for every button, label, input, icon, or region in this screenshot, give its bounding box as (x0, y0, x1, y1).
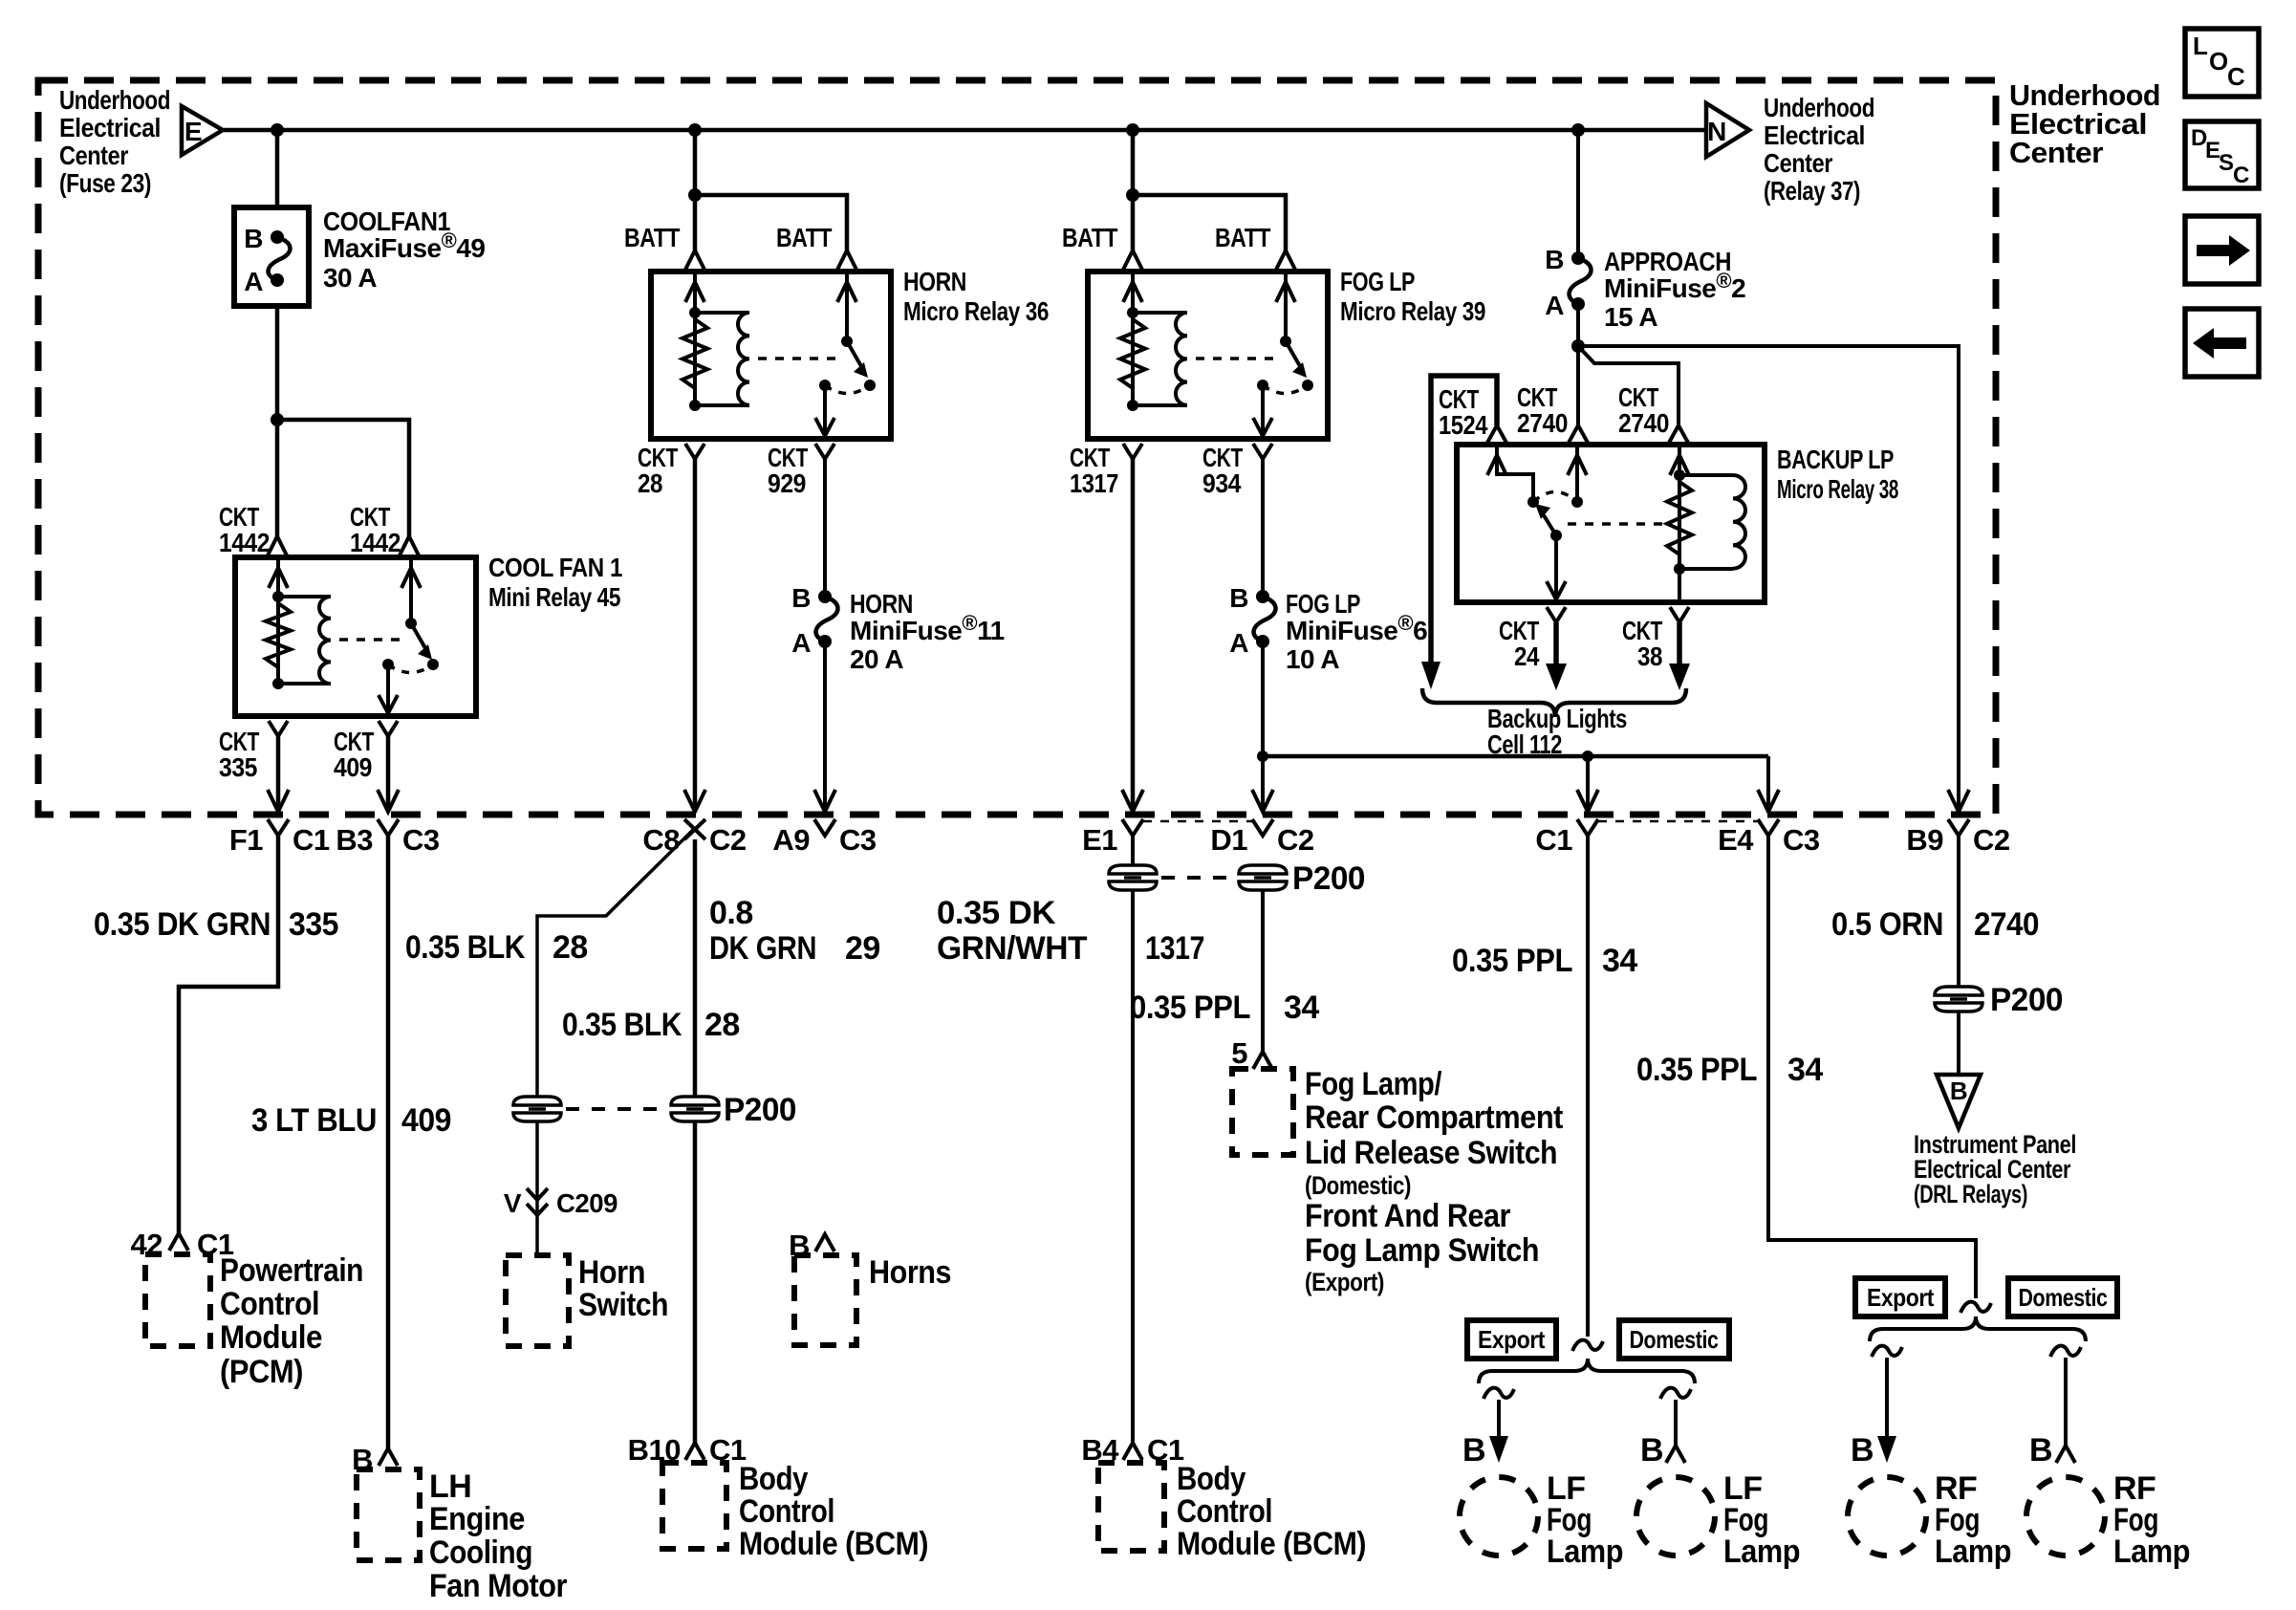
connector group dashed line C1-E4 (1598, 820, 1758, 823)
relay FOG LP Micro Relay 39 actuation dashed link (1196, 357, 1277, 360)
svg-text:BATT: BATT (776, 223, 832, 252)
wire: bus to COOLFAN1 fuse (275, 130, 280, 207)
terminal chevrons into FOG LP relay (1123, 250, 1142, 270)
relay 38 coil arm (1678, 445, 1681, 602)
brace: LF split (1479, 1359, 1695, 1383)
svg-text:Micro Relay 36: Micro Relay 36 (903, 296, 1049, 326)
svg-text:A: A (244, 267, 263, 296)
svg-text:Mini Relay 45: Mini Relay 45 (488, 582, 620, 612)
svg-text:B: B (1545, 245, 1564, 274)
svg-text:Control: Control (1177, 1493, 1272, 1530)
wire: P200 to instrument panel (1957, 1011, 1960, 1075)
relay 38 fixed contact arm (1575, 445, 1579, 500)
svg-text:L: L (2193, 32, 2208, 60)
svg-text:COOLFAN1: COOLFAN1 (323, 207, 450, 236)
svg-text:0.35 DK: 0.35 DK (937, 895, 1056, 931)
connector crossing E4/C3 (1758, 790, 1779, 812)
svg-text:Electrical: Electrical (1764, 120, 1865, 150)
relay HORN Micro Relay 36 actuation dashed link (758, 357, 838, 360)
wire break symbol (1960, 1302, 1991, 1313)
svg-text:Underhood: Underhood (59, 85, 170, 115)
svg-text:MaxiFuse®49: MaxiFuse®49 (323, 228, 485, 263)
wire: relay 39 switch to FOG LP fuse (1261, 459, 1265, 597)
option box: Domestic (2008, 1278, 2117, 1316)
wire: C1 down to LF split (1586, 836, 1590, 1337)
svg-text:Engine: Engine (429, 1501, 525, 1537)
legend box DESC (2185, 121, 2259, 188)
svg-text:Fog Lamp Switch: Fog Lamp Switch (1305, 1232, 1539, 1269)
wire: relay 36 switch to HORN fuse (823, 459, 827, 597)
fuse FOG LP MiniFuse 6 10A (1256, 590, 1269, 603)
svg-text:COOL FAN 1: COOL FAN 1 (488, 553, 622, 582)
svg-text:DK GRN: DK GRN (709, 930, 816, 967)
node E: feed triangle from Fuse 23 (182, 106, 223, 155)
relay FOG LP Micro Relay 39 resistor (1120, 319, 1145, 388)
svg-text:BATT: BATT (624, 223, 680, 252)
component box: Horns (794, 1255, 856, 1345)
svg-text:Horn: Horn (578, 1254, 645, 1291)
svg-text:HORN: HORN (903, 267, 966, 296)
svg-text:Module: Module (220, 1319, 322, 1356)
terminal B4/C1 into BCM (1123, 1443, 1142, 1460)
svg-text:34: 34 (1787, 1052, 1823, 1088)
svg-text:Body: Body (739, 1461, 809, 1497)
relay 38 resistor (1667, 482, 1692, 555)
svg-text:Domestic: Domestic (1630, 1325, 1719, 1354)
svg-text:MiniFuse®11: MiniFuse®11 (850, 611, 1005, 645)
connector V / C209 (527, 1188, 548, 1200)
svg-text:Center: Center (2009, 136, 2103, 169)
terminal 5 into fog lamp switch (1253, 1052, 1272, 1069)
wire: jog to backup relay coil arm (1578, 346, 1679, 425)
relay HORN Micro Relay 36 coil (695, 311, 749, 315)
node: junction at APPROACH fuse feed (1571, 123, 1585, 137)
svg-text:Control: Control (220, 1286, 319, 1322)
svg-text:5: 5 (1231, 1036, 1247, 1070)
inline connector P200 half at horn switch branch (513, 1097, 561, 1121)
relay FOG LP Micro Relay 39 coil arm (1131, 272, 1135, 405)
relay BACKUP LP Micro Relay 38 box (1457, 445, 1765, 602)
svg-text:S: S (2219, 150, 2234, 176)
wire: bus drop to APPROACH fuse (1576, 130, 1580, 258)
node B: Instrument Panel Electrical Center triangle (1937, 1075, 1981, 1128)
connector crossing C8/C2 (684, 790, 705, 812)
svg-text:LH: LH (429, 1469, 471, 1505)
wire: B9 to P200 (1957, 836, 1960, 988)
inline connector dashed pair link (566, 1107, 667, 1111)
svg-text:0.35 PPL: 0.35 PPL (1636, 1052, 1757, 1088)
relay COOL FAN 1 Mini Relay 45 switch (409, 557, 413, 623)
svg-text:Module (BCM): Module (BCM) (1177, 1526, 1366, 1562)
svg-text:B: B (791, 583, 811, 613)
svg-text:B3: B3 (336, 823, 373, 857)
component box: Fog Lamp / Rear Compartment Lid Release Switch (1232, 1069, 1293, 1155)
wire: fog fuse bus to C1 and E4 (1263, 754, 1768, 759)
svg-text:Center: Center (59, 141, 128, 170)
relay FOG LP Micro Relay 39 switch (1284, 272, 1288, 341)
svg-text:Module (BCM): Module (BCM) (739, 1526, 928, 1562)
svg-text:1442: 1442 (350, 528, 401, 557)
node: junction above COOL FAN relay (271, 413, 284, 426)
svg-text:P200: P200 (1292, 860, 1365, 897)
wire: E4 jog down to RF split (1768, 836, 1976, 1298)
component box: Body Control Module (BCM) 1 (662, 1463, 726, 1549)
svg-text:0.35 DK GRN: 0.35 DK GRN (94, 906, 271, 943)
svg-text:0.8: 0.8 (709, 895, 753, 931)
component box: LH Engine Cooling Fan Motor (357, 1469, 420, 1560)
component box: Powertrain Control Module (PCM) (145, 1254, 210, 1346)
svg-text:Body: Body (1177, 1461, 1246, 1497)
option box: Export (1467, 1320, 1556, 1359)
svg-text:A: A (1229, 628, 1248, 658)
svg-text:A: A (791, 628, 811, 658)
svg-text:Center: Center (1764, 148, 1832, 178)
option box: Domestic (1619, 1320, 1729, 1359)
wire: D1 P200 to fog lamp switch (1261, 889, 1265, 1052)
relay HORN Micro Relay 36 coil arm (693, 272, 697, 405)
wire: top power bus from E to N (224, 128, 1706, 133)
svg-text:GRN/WHT: GRN/WHT (937, 930, 1088, 967)
svg-text:1442: 1442 (219, 528, 270, 557)
svg-text:Fog Lamp/: Fog Lamp/ (1305, 1066, 1442, 1102)
svg-text:Export: Export (1867, 1283, 1935, 1312)
node: junction FOG LP relay branch (1126, 188, 1139, 202)
inline connector P200 half at D1 (1239, 865, 1287, 890)
wire: bus drop to HORN relay (693, 130, 698, 250)
svg-text:Powertrain: Powertrain (220, 1252, 363, 1289)
relay 38 dashed contact arc (1533, 492, 1577, 503)
svg-text:28: 28 (638, 468, 662, 498)
svg-text:Export: Export (1478, 1325, 1546, 1354)
svg-text:B: B (1851, 1432, 1874, 1469)
relay COOL FAN 1 Mini Relay 45 actuation dashed link (339, 638, 402, 642)
relay 38 switch blade (1544, 515, 1556, 535)
svg-text:1317: 1317 (1070, 468, 1118, 498)
node: junction at C1 drop (1582, 751, 1593, 762)
svg-text:0.35 BLK: 0.35 BLK (405, 929, 526, 966)
svg-text:335: 335 (289, 906, 338, 943)
relay HORN Micro Relay 36 box (651, 272, 891, 439)
wire: APPROACH fuse to junction (1576, 304, 1580, 425)
svg-text:24: 24 (1514, 642, 1540, 671)
lamp: LF Fog Lamp (1460, 1477, 1538, 1556)
wire: FOG fuse to backup-lights bus (1261, 642, 1265, 808)
svg-text:0.35 PPL: 0.35 PPL (1452, 943, 1572, 979)
wire: C1 drop to border (1586, 756, 1590, 808)
lamp: LF Fog Lamp (1636, 1477, 1715, 1556)
svg-text:B: B (1950, 1077, 1967, 1105)
relay HORN Micro Relay 36 resistor (682, 319, 707, 388)
relay 38 coil (1679, 473, 1733, 477)
inline connector P200 half at B9 (1935, 987, 1982, 1012)
svg-text:34: 34 (1602, 943, 1637, 979)
svg-text:28: 28 (552, 929, 588, 966)
svg-text:Micro Relay 39: Micro Relay 39 (1340, 296, 1485, 326)
svg-text:0.5 ORN: 0.5 ORN (1831, 906, 1943, 943)
svg-text:P200: P200 (724, 1092, 796, 1128)
wire: F1 jog to PCM (179, 836, 278, 1233)
brace: backup lights outputs (1422, 688, 1686, 717)
svg-text:A9: A9 (772, 823, 810, 857)
node: junction at FOG LP relay feed (1126, 123, 1139, 137)
wire CKT 38 output (1677, 622, 1682, 664)
svg-text:Lamp: Lamp (1723, 1534, 1800, 1570)
svg-text:C: C (2227, 62, 2245, 91)
wire: branch to relay switch arm (277, 420, 409, 536)
svg-text:BATT: BATT (1062, 223, 1117, 252)
svg-text:BATT: BATT (1215, 223, 1270, 252)
relay FOG LP Micro Relay 39 box (1088, 272, 1328, 439)
svg-text:20 A: 20 A (850, 644, 903, 674)
svg-text:Underhood: Underhood (1764, 93, 1874, 122)
svg-text:B: B (2029, 1432, 2052, 1469)
svg-text:929: 929 (768, 468, 806, 498)
relay COOL FAN 1 Mini Relay 45 coil arm (276, 557, 280, 684)
wire: LF domestic branch (1660, 1388, 1691, 1399)
svg-text:(Domestic): (Domestic) (1305, 1171, 1411, 1200)
wire: relay 45 pin to B3 (386, 736, 391, 808)
svg-text:N: N (1707, 117, 1726, 146)
wire: diagonal from C8 to horn-switch branch (537, 829, 694, 1098)
component box: Body Control Module (BCM) 2 (1098, 1463, 1164, 1551)
svg-text:C: C (2233, 163, 2249, 188)
node: junction at COOLFAN1 feed (271, 123, 284, 137)
lamp: RF Fog Lamp (2026, 1477, 2105, 1556)
svg-text:34: 34 (1284, 990, 1319, 1026)
svg-text:B9: B9 (1906, 823, 1943, 857)
svg-text:Micro Relay 38: Micro Relay 38 (1777, 474, 1898, 504)
component box: Horn Switch (506, 1255, 569, 1346)
legend box left-arrow (2185, 309, 2259, 377)
relay FOG LP Micro Relay 39 exit terminals (1123, 444, 1142, 459)
svg-text:0.35 PPL: 0.35 PPL (1130, 990, 1250, 1026)
svg-text:Lamp: Lamp (2113, 1534, 2190, 1570)
svg-text:Lamp: Lamp (1935, 1534, 2011, 1570)
svg-text:(Export): (Export) (1305, 1268, 1384, 1296)
svg-text:C2: C2 (709, 823, 747, 857)
connector crossing D1/C2 (1252, 790, 1273, 812)
svg-text:Cooling: Cooling (429, 1534, 532, 1571)
wire: branch to HORN relay switch arm (695, 195, 847, 250)
wire: P200 to BCM B10 (693, 1120, 698, 1443)
svg-text:15 A: 15 A (1604, 302, 1657, 332)
dashed box: Underhood Electrical Center boundary (38, 80, 1996, 815)
svg-text:C3: C3 (1783, 823, 1820, 857)
svg-text:28: 28 (704, 1007, 740, 1043)
svg-text:B: B (244, 224, 263, 253)
terminal B into Horns (815, 1234, 834, 1251)
svg-text:APPROACH: APPROACH (1604, 247, 1731, 276)
lamp: RF Fog Lamp (1848, 1477, 1926, 1556)
wire: P200 to C209 (535, 1120, 539, 1255)
svg-text:BACKUP LP: BACKUP LP (1777, 445, 1894, 474)
svg-text:B: B (1640, 1432, 1663, 1469)
svg-text:Electrical: Electrical (59, 113, 161, 142)
wire: E1 to P200 (1131, 836, 1135, 866)
svg-text:C1: C1 (292, 823, 330, 857)
svg-text:1524: 1524 (1439, 410, 1488, 440)
svg-text:C2: C2 (1277, 823, 1314, 857)
wire: RF export branch (1872, 1346, 1902, 1357)
option box: Export (1855, 1278, 1945, 1316)
svg-text:Horns: Horns (869, 1254, 951, 1291)
wire break symbol (1572, 1340, 1603, 1351)
svg-text:C8: C8 (642, 823, 680, 857)
connector crossing A9/C3 (814, 790, 835, 812)
fuse HORN MiniFuse 11 20A (818, 590, 832, 603)
svg-text:B: B (1229, 583, 1248, 613)
inline connector dashed pair link (1161, 876, 1235, 880)
wire: E1 P200 to BCM B4 (1131, 889, 1135, 1443)
relay 38 exit terminals (1547, 607, 1566, 622)
svg-text:(PCM): (PCM) (220, 1354, 303, 1390)
svg-text:F1: F1 (229, 823, 263, 857)
relay 38 dashed actuation link (1568, 522, 1664, 526)
svg-text:29: 29 (845, 930, 880, 967)
wire: bus drop to FOG LP relay (1131, 130, 1136, 250)
svg-text:3 LT BLU: 3 LT BLU (251, 1102, 377, 1139)
fuse element (271, 230, 284, 244)
connector crossing C1 (1577, 790, 1598, 812)
connector group dashed line E1-D1 (1143, 820, 1252, 823)
svg-text:Switch: Switch (578, 1287, 668, 1323)
svg-text:2740: 2740 (1974, 906, 2039, 943)
svg-text:C1: C1 (1535, 823, 1572, 857)
brace: RF split (1870, 1316, 2086, 1341)
svg-text:C209: C209 (556, 1188, 617, 1218)
svg-text:HORN: HORN (850, 589, 913, 619)
svg-text:Domestic: Domestic (2019, 1283, 2108, 1312)
svg-text:(Fuse 23): (Fuse 23) (59, 168, 151, 198)
legend box right-arrow (2185, 216, 2259, 284)
terminal chevrons into COOL FAN relay (268, 536, 287, 555)
legend box LOC (2185, 29, 2259, 97)
relay COOL FAN 1 Mini Relay 45 exit terminals (269, 721, 288, 736)
fuse APPROACH MiniFuse 2 15A (1571, 251, 1585, 265)
svg-text:10 A: 10 A (1286, 644, 1339, 674)
svg-text:(DRL Relays): (DRL Relays) (1914, 1180, 2027, 1208)
svg-text:D1: D1 (1210, 823, 1247, 857)
svg-text:Lamp: Lamp (1547, 1534, 1623, 1570)
relay FOG LP Micro Relay 39 coil (1133, 311, 1187, 315)
svg-text:E4: E4 (1718, 823, 1754, 857)
terminal B into LH fan motor (379, 1448, 398, 1466)
svg-text:934: 934 (1202, 468, 1242, 498)
svg-text:V: V (504, 1188, 522, 1218)
relay COOL FAN 1 Mini Relay 45 box (235, 557, 476, 716)
wire: junction to B9 drop (1578, 346, 1959, 808)
svg-text:O: O (2209, 47, 2228, 76)
svg-text:P200: P200 (1990, 982, 2063, 1018)
terminal B10/C1 into BCM (685, 1443, 704, 1460)
connector crossing B3/C3 (378, 790, 399, 812)
wire: relay 36 coil return to C8 (693, 459, 698, 808)
wire: relay 39 coil return to E1 (1131, 459, 1136, 808)
svg-text:C3: C3 (402, 823, 440, 857)
svg-text:FOG LP: FOG LP (1340, 267, 1415, 296)
inline connector P200 half at BCM branch (671, 1097, 719, 1121)
node N: to Underhood Electrical Center (Relay 37) (1706, 103, 1749, 157)
svg-text:335: 335 (219, 752, 257, 782)
wire CKT 24 output (1553, 622, 1559, 664)
fuse COOLFAN1 MaxiFuse 49 box (234, 207, 309, 306)
wire CKT 1524 loop (1431, 376, 1497, 662)
wire: E4 drop to border (1766, 756, 1770, 808)
svg-text:2740: 2740 (1517, 408, 1568, 438)
node: junction under APPROACH fuse (1571, 339, 1585, 353)
wire: C8/C2 main down (693, 839, 698, 1098)
wire: relay 45 pin to F1 (276, 736, 281, 808)
svg-text:B: B (1462, 1432, 1485, 1469)
svg-text:409: 409 (334, 752, 372, 782)
svg-text:Control: Control (739, 1493, 834, 1530)
svg-text:Lid Release Switch: Lid Release Switch (1305, 1135, 1557, 1171)
wire: fuse to COOL FAN relay (275, 306, 280, 536)
svg-text:C3: C3 (839, 823, 877, 857)
svg-text:1317: 1317 (1145, 930, 1204, 967)
svg-text:Front And Rear: Front And Rear (1305, 1198, 1510, 1234)
node: junction at HORN relay feed (688, 123, 702, 137)
svg-text:0.35 BLK: 0.35 BLK (562, 1007, 682, 1043)
svg-text:A: A (1545, 291, 1564, 320)
node: junction HORN relay branch (688, 188, 702, 202)
svg-text:C2: C2 (1973, 823, 2010, 857)
svg-text:FOG LP: FOG LP (1286, 589, 1360, 619)
relay COOL FAN 1 Mini Relay 45 resistor (266, 603, 291, 667)
svg-text:(Relay 37): (Relay 37) (1764, 176, 1860, 206)
relay 38 switch feed arm (1497, 445, 1533, 500)
svg-text:2740: 2740 (1618, 408, 1669, 438)
terminal chevrons into BACKUP relay (1487, 425, 1506, 443)
svg-text:30 A: 30 A (323, 263, 377, 293)
wire: RF domestic branch (2050, 1346, 2081, 1357)
connector crossing E1 (1122, 790, 1143, 812)
inline connector P200 half at E1 (1109, 865, 1157, 890)
relay COOL FAN 1 Mini Relay 45 coil (278, 595, 331, 598)
svg-text:Fan Motor: Fan Motor (429, 1568, 567, 1604)
wire: B3 to LH fan motor (386, 836, 391, 1448)
svg-text:E1: E1 (1082, 823, 1117, 857)
wire: LF export branch (1484, 1388, 1514, 1399)
terminal 42/C1 into PCM (169, 1233, 188, 1251)
connector crossing B9/C2 (1948, 790, 1969, 812)
svg-text:409: 409 (401, 1102, 451, 1139)
terminal chevrons into HORN relay (685, 250, 704, 270)
relay HORN Micro Relay 36 exit terminals (685, 444, 704, 459)
connector crossing F1/C1 (268, 790, 289, 812)
svg-text:Rear Compartment: Rear Compartment (1305, 1099, 1563, 1136)
wire: HORN fuse to A9 (823, 642, 827, 808)
node: junction at D1 drop (1257, 751, 1268, 762)
svg-text:E: E (184, 117, 202, 146)
wire: branch to FOG LP relay switch arm (1133, 195, 1286, 250)
svg-text:38: 38 (1637, 642, 1662, 671)
relay HORN Micro Relay 36 switch (845, 272, 849, 341)
